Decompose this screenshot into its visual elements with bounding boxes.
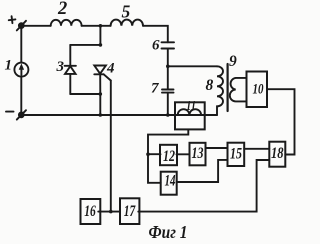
wire top rail left xyxy=(24,25,51,27)
wire bottom rail xyxy=(24,114,218,116)
svg-text:1: 1 xyxy=(5,58,13,74)
transformer core xyxy=(227,64,229,111)
svg-text:12: 12 xyxy=(163,148,175,165)
svg-text:18: 18 xyxy=(271,145,284,162)
node cap junction xyxy=(166,65,170,69)
svg-text:14: 14 xyxy=(165,173,176,190)
wire cap7 to bottom rail xyxy=(167,93,169,115)
block 12 xyxy=(160,145,177,165)
wire left vertical top xyxy=(20,28,22,63)
current sensor block 11 xyxy=(175,102,205,129)
wire block10 to block18 riser xyxy=(267,89,295,154)
block 15 xyxy=(228,143,245,166)
thyristor VS4 xyxy=(94,66,111,95)
node top bar junction xyxy=(99,43,103,47)
svg-text:15: 15 xyxy=(230,146,242,163)
wire 17 to 18 riser xyxy=(138,160,269,212)
wire thyristor branch drop xyxy=(99,26,101,45)
wire 13 to 15 xyxy=(206,147,228,149)
node bottom rail at thyristor xyxy=(99,113,103,117)
inductor 5 xyxy=(111,20,143,26)
current source G1 xyxy=(14,63,28,77)
svg-text:11: 11 xyxy=(186,99,196,114)
wire 15 to 18 xyxy=(244,148,269,150)
wire junction to primary top xyxy=(168,65,217,67)
terminal minus xyxy=(17,110,26,119)
block 16 xyxy=(81,199,101,224)
transformer primary winding 8 xyxy=(217,66,223,115)
svg-text:3: 3 xyxy=(56,59,65,75)
svg-text:10: 10 xyxy=(253,82,264,98)
node bottom rail at cap7 xyxy=(166,113,170,117)
wire bar to bottom rail xyxy=(99,94,101,115)
wire branch to block12 xyxy=(148,153,161,155)
svg-text:16: 16 xyxy=(84,203,96,220)
block 14 xyxy=(161,172,177,195)
wire 16 to 17 xyxy=(98,211,120,213)
diode VD3 xyxy=(65,66,76,94)
transformer secondary winding 9 xyxy=(230,78,247,102)
wire top rail right with corner down xyxy=(143,26,168,43)
block 18 xyxy=(269,142,285,167)
wire junction to cap7 xyxy=(167,66,169,89)
node top rail junction xyxy=(99,24,103,28)
wire 12 to 13 xyxy=(177,153,190,155)
svg-text:5: 5 xyxy=(122,2,131,22)
block 10 xyxy=(247,72,268,108)
wire bottom bar xyxy=(70,93,100,95)
wire cap6 to junction xyxy=(167,49,169,67)
wire 14 to 15 riser xyxy=(177,160,228,182)
capacitor C7 xyxy=(162,90,174,93)
inductor 2 xyxy=(51,20,82,26)
wire diode anode drop xyxy=(69,45,71,66)
svg-text:4: 4 xyxy=(106,60,115,76)
terminal plus xyxy=(17,21,26,31)
label minus xyxy=(6,111,14,113)
wire left vertical bottom xyxy=(20,77,22,113)
svg-text:6: 6 xyxy=(152,38,160,54)
wire block11 to left rail and block12/14 xyxy=(148,129,188,182)
wire thyristor gate vertical xyxy=(110,81,112,212)
capacitor C6 xyxy=(162,42,175,48)
label plus xyxy=(8,16,16,24)
sensor windings inside 11 xyxy=(178,109,201,115)
svg-text:17: 17 xyxy=(124,203,136,220)
svg-text:2: 2 xyxy=(57,0,67,19)
svg-text:8: 8 xyxy=(206,77,214,94)
node bottom bar junction xyxy=(99,92,103,96)
svg-text:7: 7 xyxy=(151,81,159,97)
node left rail branch xyxy=(146,152,150,156)
svg-text:Фиг 1: Фиг 1 xyxy=(149,222,188,242)
node gate at 16-17 wire xyxy=(109,210,113,214)
wire top rail middle xyxy=(82,25,111,27)
wire top bar xyxy=(70,44,100,46)
svg-text:13: 13 xyxy=(192,145,204,162)
block 17 xyxy=(120,198,139,224)
svg-text:9: 9 xyxy=(229,53,237,70)
block 13 xyxy=(190,143,206,166)
